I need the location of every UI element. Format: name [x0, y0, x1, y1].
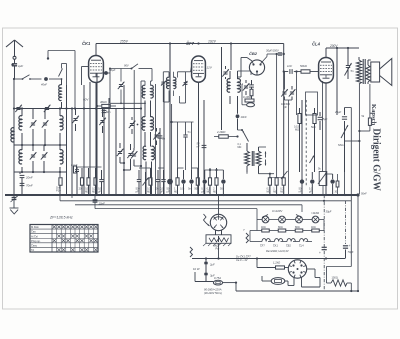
inductor L3	[19, 145, 22, 172]
svg-text:TA: TA	[31, 248, 34, 252]
svg-text:10n: 10n	[155, 188, 160, 191]
svg-text:μF: μF	[201, 190, 204, 193]
svg-text:50n: 50n	[220, 188, 225, 191]
transformer T3 IF input	[163, 72, 176, 102]
svg-text:10n: 10n	[180, 188, 185, 191]
tube U4 CL4	[319, 58, 334, 84]
wire antenna lead down	[13, 79, 15, 195]
capacitor 0.1uF jumper x77	[71, 164, 79, 195]
svg-text:2,2MΩ: 2,2MΩ	[216, 130, 226, 134]
svg-text:μF: μF	[309, 190, 312, 193]
wire plate supply bus 255V	[96, 42, 284, 177]
resistor 150 ohm barretter	[327, 267, 360, 293]
svg-text:+: +	[319, 251, 321, 255]
resistor field 5k	[345, 115, 372, 141]
capacitor 30uF electrolytic a	[319, 195, 332, 292]
trimmer capacitor 300pF af	[281, 86, 295, 195]
svg-text:90-260V≈22VA: 90-260V≈22VA	[204, 287, 222, 291]
wire dial drop	[217, 194, 219, 259]
antenna	[6, 40, 23, 59]
resistor 30ohm small	[335, 174, 339, 195]
label CK1	[82, 41, 91, 46]
inductor L1 antenna coil	[19, 109, 22, 146]
svg-text:40nF: 40nF	[41, 83, 47, 87]
label Ua 220V	[262, 209, 302, 218]
capacitor dark x302	[299, 172, 305, 195]
label CF7	[186, 41, 195, 46]
trimmer capacitor C1	[15, 105, 22, 112]
wire af filter row	[171, 121, 194, 170]
wire main ground bus	[5, 193, 360, 196]
svg-text:Ra=24kΩ; Ua=6,3V: Ra=24kΩ; Ua=6,3V	[266, 249, 289, 253]
wire osc right rail	[155, 84, 157, 195]
wire return line a	[60, 195, 351, 201]
wire lamp rail	[257, 219, 324, 221]
capacitor 0.1uF row	[98, 170, 104, 195]
svg-text:8μF: 8μF	[323, 117, 328, 121]
svg-text:ČB2: ČB2	[249, 51, 258, 56]
switch S3 mains link	[190, 247, 193, 259]
tube U2 CF7	[192, 56, 206, 82]
trimmer capacitor padder	[118, 69, 125, 105]
transformer T2 core	[363, 59, 365, 84]
trimmer capacitor C7	[72, 109, 79, 132]
capacitor 10nF bus	[93, 195, 106, 209]
trimmer capacitor osc a	[129, 117, 139, 134]
svg-text:80Ω: 80Ω	[295, 226, 300, 229]
variable capacitor C6	[41, 145, 48, 172]
mech link dial	[204, 214, 210, 226]
diode detector arrow row	[143, 172, 149, 195]
label 192V	[208, 39, 217, 43]
svg-text:NSG: NSG	[338, 143, 344, 147]
wire resistor rail	[257, 220, 324, 231]
resistor 0.5M row	[267, 174, 272, 195]
potentiometer tone 5k	[318, 168, 327, 196]
capacitor row x158	[155, 170, 161, 195]
transformer T1b oscillator coil	[142, 117, 153, 147]
variable capacitor C4 tuning	[42, 109, 49, 146]
wire dashed mech	[306, 100, 314, 186]
wire column x104	[103, 109, 105, 195]
svg-text:70nF: 70nF	[26, 184, 33, 188]
svg-text:2μF: 2μF	[209, 263, 215, 267]
variable capacitor C3 tuning	[30, 109, 37, 146]
svg-text:MΩ: MΩ	[273, 190, 277, 193]
wire osc top link	[48, 51, 75, 109]
capacitor 6nF osc	[158, 128, 166, 195]
inductor L2	[60, 109, 63, 146]
resistor 5k dial box	[203, 235, 231, 251]
shield box detector	[306, 92, 318, 115]
wire CL4 screen drop	[323, 48, 338, 195]
svg-text:192V: 192V	[208, 39, 217, 43]
inductor L6 below switch	[59, 79, 62, 109]
svg-text:μF: μF	[167, 190, 170, 193]
svg-text:40Ω: 40Ω	[311, 226, 316, 229]
label 90V	[83, 98, 89, 102]
svg-text:Ua 0 ÷ 4V: Ua 0 ÷ 4V	[236, 258, 248, 262]
svg-text:80Ω: 80Ω	[278, 226, 283, 229]
wire switch drop	[133, 70, 135, 148]
svg-text:MΩ: MΩ	[213, 190, 217, 193]
label Ra Ua	[266, 249, 289, 253]
capacitor 3uF psu	[204, 270, 215, 282]
wire T3 down	[171, 104, 173, 195]
svg-text:0,1MΩ: 0,1MΩ	[243, 95, 251, 99]
label Dirigent G/GW	[370, 128, 382, 191]
svg-text:20nF: 20nF	[25, 176, 33, 180]
svg-text:1μF: 1μF	[18, 64, 23, 68]
fuse 0.75A	[195, 276, 236, 285]
wire column x90	[89, 82, 91, 195]
wire column x84	[83, 85, 85, 195]
svg-text:40Ω: 40Ω	[261, 226, 266, 229]
wire lower junction row	[14, 171, 67, 173]
svg-text:ČK1: ČK1	[82, 41, 91, 46]
capacitor 5nF af filter	[183, 122, 191, 170]
capacitor 20nF	[20, 172, 33, 195]
resistor 1M row	[273, 178, 278, 195]
heater winding CK1	[273, 239, 283, 248]
capacitor oval det	[242, 84, 255, 107]
capacitor 1nF coupling	[287, 64, 292, 74]
heater winding CL4	[299, 239, 308, 248]
wire x221 from 192V	[222, 47, 232, 130]
wire CF7 cathode	[198, 82, 200, 195]
resistor 0.2M row with arrow	[280, 171, 287, 195]
wire heater row	[250, 231, 312, 242]
svg-text:MΩ: MΩ	[92, 190, 96, 193]
wire heater feed	[192, 257, 345, 259]
capacitor dark x223.4	[220, 170, 226, 195]
svg-text:0,1μF: 0,1μF	[71, 164, 78, 167]
wire pot bottom	[247, 172, 274, 175]
trimmer capacitor T3 primary	[161, 81, 167, 86]
heater winding CF7	[260, 239, 270, 248]
capacitor spark main	[11, 195, 19, 202]
svg-text:M.blok: M.blok	[31, 225, 39, 229]
ground main	[10, 200, 19, 214]
wiper arrows volume	[259, 147, 267, 166]
wire return line b	[75, 195, 302, 212]
wire selector right dash	[327, 108, 352, 284]
capacitor dark x191.5	[188, 170, 194, 195]
switch S1c oscillator	[109, 64, 152, 70]
svg-text:MΩ: MΩ	[267, 190, 271, 193]
resistor 0.3M right	[294, 108, 301, 172]
electrolytic 50uF dark x170	[167, 44, 173, 195]
wire osc loop left	[102, 69, 145, 104]
capacitor 500pF row	[136, 170, 142, 195]
resistor row x150.5	[147, 168, 152, 195]
trimmer capacitor C8	[99, 109, 106, 133]
svg-text:U=220V: U=220V	[272, 209, 283, 213]
svg-text:ČF7: ČF7	[186, 41, 195, 46]
svg-text:μF: μF	[160, 190, 163, 193]
svg-text:25μF: 25μF	[334, 110, 341, 114]
trimmer capacitor C10	[123, 144, 134, 171]
trimmer capacitor detector	[243, 80, 250, 95]
capacitor 10nF tone	[345, 48, 354, 79]
svg-text:50n: 50n	[106, 110, 111, 114]
svg-text:ZF=128,5 kHz: ZF=128,5 kHz	[49, 216, 73, 220]
resistor 0.1M det	[243, 95, 254, 102]
svg-text:Kapsch: Kapsch	[370, 104, 377, 126]
resistor 40k	[97, 100, 116, 108]
trimmer capacitor C9	[117, 143, 125, 164]
wire return line c	[95, 200, 325, 220]
resistor 50k coupling	[300, 64, 310, 73]
svg-text:MΩ: MΩ	[280, 190, 284, 193]
wire AF coupling	[283, 70, 319, 88]
wire grid column x72	[71, 107, 73, 195]
svg-text:μF: μF	[98, 190, 101, 193]
resistor row x210	[207, 168, 212, 195]
svg-text:5n: 5n	[351, 69, 354, 73]
svg-text:MΩ: MΩ	[174, 190, 178, 193]
lamp La3	[296, 216, 303, 223]
resistor 0.1M row a	[85, 168, 90, 195]
resistor 1.2k psu	[256, 257, 288, 269]
capacitor 8uF right	[318, 112, 328, 130]
capacitor dark x183.5	[180, 170, 186, 195]
svg-text:Dirigent G/GW: Dirigent G/GW	[370, 128, 382, 191]
capacitor 50nF mains filter	[358, 193, 367, 291]
svg-text:1,2kΩ: 1,2kΩ	[273, 261, 280, 265]
capacitor 100pF det	[249, 80, 254, 89]
wire psu left	[194, 272, 196, 282]
svg-text:30μF: 30μF	[326, 210, 332, 214]
inductor L5 series	[11, 124, 14, 145]
wire CF7 grid cap	[186, 66, 192, 72]
trimmer capacitor T3 secondary	[183, 81, 188, 86]
transformer T4 IF detector	[222, 66, 240, 104]
lamp La1	[262, 216, 269, 223]
capacitor dark x332.6	[326, 174, 335, 195]
switch S1b contact	[47, 51, 49, 60]
svg-text:MΩ: MΩ	[207, 190, 211, 193]
speaker LS1	[368, 59, 392, 86]
capacitor dark x204.7	[201, 170, 207, 195]
wire grid leak drop	[296, 72, 298, 116]
wire top link row	[77, 167, 284, 178]
svg-text:50nF: 50nF	[361, 193, 367, 196]
switch S2 mains on volume	[238, 129, 249, 149]
wire osc left rail	[140, 81, 142, 195]
resistor 1k P10	[56, 172, 62, 195]
svg-text:MΩ: MΩ	[85, 190, 89, 193]
svg-text:30μF/150V: 30μF/150V	[266, 49, 279, 53]
lamp La2	[279, 216, 286, 223]
label CB2	[249, 51, 258, 56]
svg-text:255V: 255V	[119, 39, 129, 43]
wire screen drop	[170, 44, 231, 173]
resistor 80 ohm b	[295, 226, 303, 232]
wire CB2 grid	[238, 71, 252, 75]
svg-text:ČF7: ČF7	[260, 245, 265, 248]
label CL4	[312, 42, 321, 47]
svg-text:10 W: 10 W	[193, 267, 200, 271]
wire tuner right rail	[66, 85, 68, 195]
svg-text:1nF: 1nF	[287, 64, 292, 68]
resistor 5k right	[311, 108, 316, 172]
capacitor 30nF detector out	[262, 49, 285, 178]
wire column x164	[163, 85, 165, 195]
capacitor row x163.5	[160, 170, 166, 195]
table band switch matrix	[30, 225, 98, 253]
svg-text:10nF: 10nF	[241, 115, 247, 119]
lamp La4	[312, 216, 319, 223]
label 200V	[329, 44, 338, 48]
resistor 0.2M row b	[92, 168, 97, 195]
resistor row x177.5	[174, 168, 179, 195]
resistor 40 ohm b	[311, 226, 319, 232]
wire column x116	[115, 109, 117, 196]
resistor 40 ohm a	[261, 226, 269, 232]
svg-text:0,75A: 0,75A	[214, 276, 221, 280]
svg-text:Přep.sp.: Přep.sp.	[31, 239, 41, 243]
svg-text:≈110Ω: ≈110Ω	[311, 211, 320, 215]
capacitor 1nF antenna coupling	[11, 59, 23, 79]
svg-text:+: +	[349, 244, 351, 248]
label 10W	[193, 267, 200, 271]
capacitor dark x312.3	[309, 172, 315, 195]
transformer T3 secondary bracket	[174, 72, 186, 103]
wire column x109	[108, 98, 110, 195]
capacitor 2uF psu	[204, 259, 215, 271]
wire junction row	[14, 144, 67, 146]
wire column x97	[96, 73, 98, 195]
resistor 20k row	[79, 168, 84, 195]
label Kapsch	[370, 104, 377, 126]
svg-text:150Ω: 150Ω	[332, 276, 338, 280]
mains plug P1	[288, 260, 306, 278]
svg-text:MΩ: MΩ	[238, 146, 242, 149]
wire CK1 grid	[82, 67, 89, 86]
svg-text:40kΩ: 40kΩ	[100, 100, 108, 104]
wire column x207 50nF	[197, 100, 207, 195]
svg-text:70μF: 70μF	[348, 250, 354, 254]
svg-text:nF: nF	[197, 145, 200, 149]
svg-text:(90-240V 50c/s): (90-240V 50c/s)	[204, 292, 222, 295]
potentiometer volume with transformer	[245, 143, 261, 174]
wire speaker field	[369, 84, 371, 118]
svg-text:10nF: 10nF	[99, 202, 106, 206]
resistor row x216.5	[213, 168, 218, 195]
wire column x124	[123, 85, 125, 195]
svg-text:nF: nF	[299, 190, 302, 193]
label 110ohm	[311, 211, 320, 215]
heater winding CB2	[286, 239, 295, 248]
svg-text:90V: 90V	[124, 64, 129, 68]
resistor row x197.8	[194, 168, 199, 195]
svg-text:ČB2: ČB2	[286, 245, 291, 248]
transformer T2 output primary	[357, 57, 362, 194]
svg-text:pF: pF	[136, 190, 139, 193]
trimmer capacitor C2	[44, 105, 51, 112]
capacitor 25uF NSG	[334, 108, 348, 196]
svg-text:ČL4: ČL4	[299, 245, 304, 248]
svg-text:ČL4: ČL4	[312, 42, 321, 47]
variable capacitor C5	[30, 145, 37, 172]
switch S1c corner	[59, 64, 67, 86]
wire stub x72	[71, 195, 73, 198]
label mains voltage	[204, 287, 222, 295]
transformer T2 secondary	[366, 60, 370, 84]
label Do CK1 CF7	[236, 254, 251, 263]
trimmer capacitor osc b	[153, 128, 160, 145]
svg-text:50kΩ: 50kΩ	[300, 64, 308, 68]
transformer T1c oscillator coil	[143, 146, 154, 195]
svg-text:pF: pF	[284, 106, 287, 109]
voltage selector oval	[262, 276, 285, 284]
tube U3 CB2	[238, 58, 265, 78]
inductor L4	[60, 145, 63, 172]
label 255V	[119, 39, 129, 43]
resistor 80 ohm a	[278, 226, 286, 232]
label ZF=128.5 kHz	[49, 216, 73, 220]
svg-text:MΩ: MΩ	[147, 190, 151, 193]
capacitor 50nF mid	[102, 110, 111, 114]
capacitor 70nF	[20, 183, 33, 187]
trimmer capacitor 100pF af	[281, 72, 288, 101]
capacitor 10nF af	[236, 104, 247, 130]
svg-text:5kΩ: 5kΩ	[311, 126, 316, 129]
wire CL4 plate to output transformer	[326, 47, 359, 58]
wire AVC bus	[14, 107, 141, 109]
tube U1 CK1	[89, 51, 104, 83]
resistor 2.2M	[214, 130, 239, 138]
fuse squiggle	[243, 228, 249, 243]
tuning indicator M1	[210, 214, 226, 235]
transformer T1a oscillator coil	[141, 69, 153, 118]
capacitor 40nF switch	[41, 77, 48, 86]
trimmer capacitor osc c	[131, 148, 141, 166]
switch S1 band	[13, 75, 62, 80]
capacitor 70uF electrolytic b	[343, 201, 354, 259]
resistor on column x75	[74, 166, 77, 173]
wire column x302	[301, 100, 303, 195]
svg-text:MΩ: MΩ	[295, 129, 299, 132]
resistor det load	[250, 89, 253, 99]
label 12V	[207, 66, 213, 70]
svg-text:ČK1: ČK1	[273, 245, 278, 248]
wire psu bottom loop	[235, 269, 358, 291]
capacitor 50nF at CK1	[96, 68, 116, 195]
